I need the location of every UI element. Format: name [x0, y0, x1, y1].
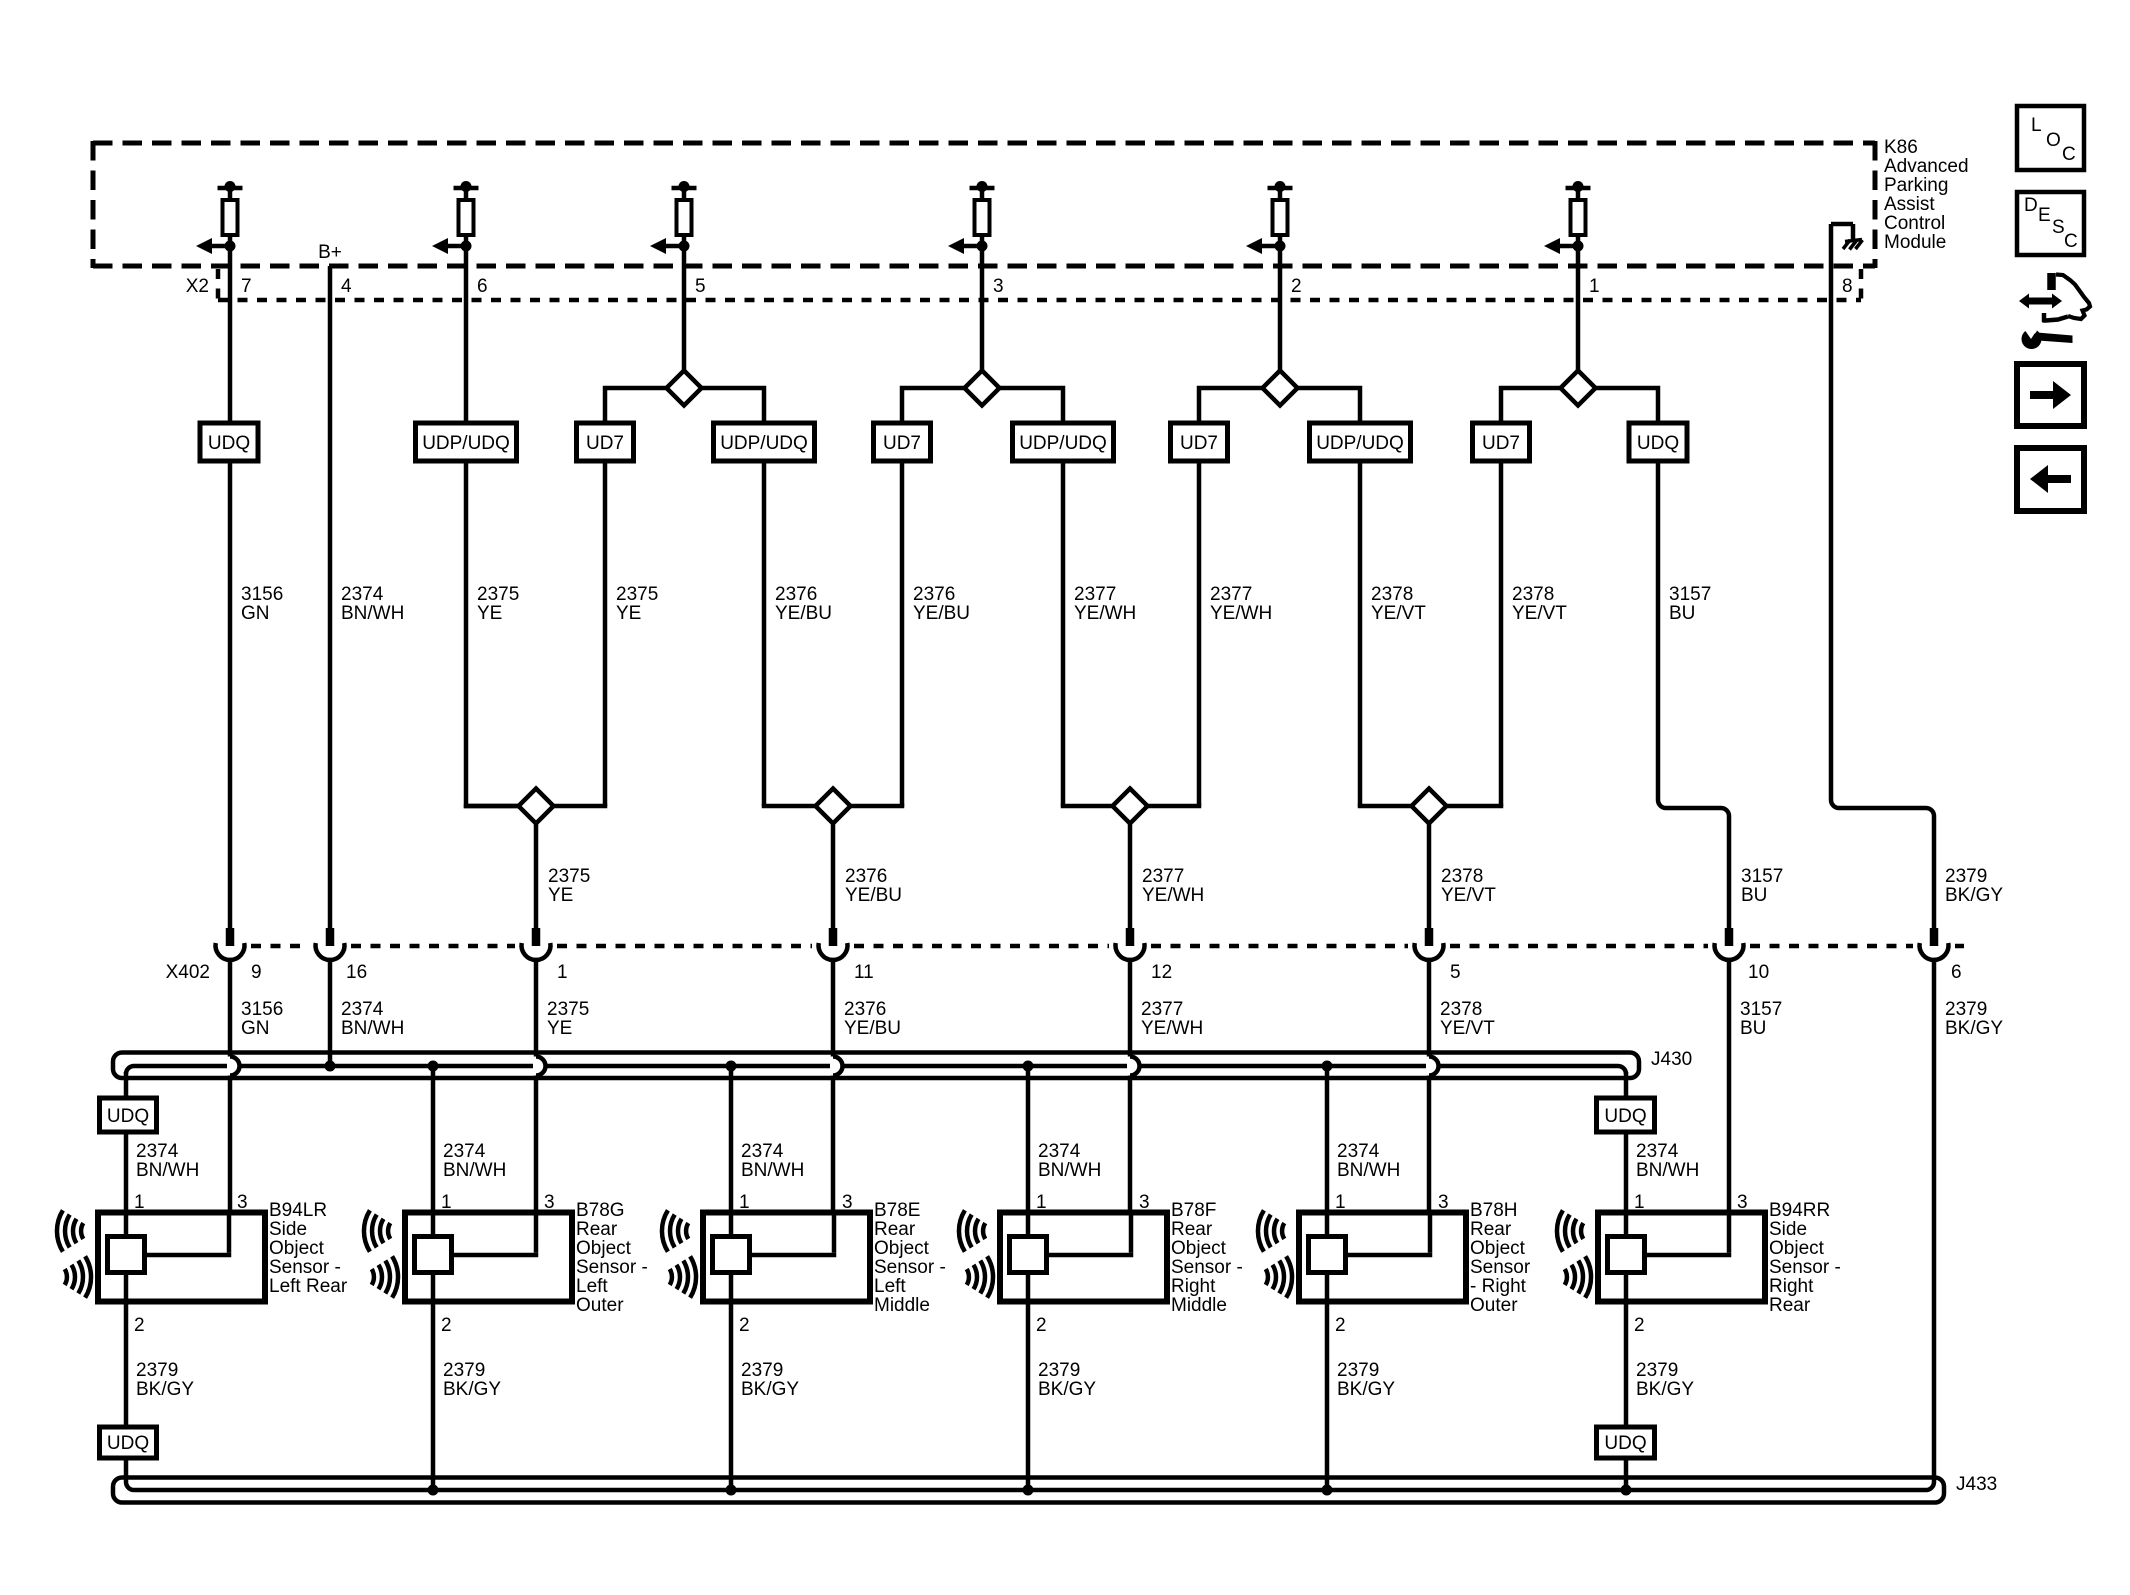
internal driver resistor R5 on X2 branch (x=1280) — [1246, 181, 1293, 254]
wire merged output of splice x=1130 to X402 — [1128, 824, 1133, 931]
splice diamond (branch merge) at x=536 — [519, 789, 554, 824]
svg-text:2374: 2374 — [1038, 1141, 1081, 1162]
wire 2374 BN/WH J430 to B94LR pin 1 (via UDQ) — [124, 1072, 129, 1213]
svg-text:YE: YE — [477, 603, 502, 624]
svg-text:YE/VT: YE/VT — [1441, 885, 1496, 906]
svg-text:BK/GY: BK/GY — [1636, 1379, 1694, 1400]
pin 5 of X402 — [1450, 962, 1461, 983]
wire left branch of diamond x=684 — [605, 388, 667, 806]
svg-text:YE/VT: YE/VT — [1440, 1018, 1495, 1039]
splice pack J430 housing — [113, 1053, 1639, 1079]
svg-text:Left: Left — [576, 1276, 608, 1297]
wire label 2374 BN/WH at sensor B78F — [1038, 1141, 1101, 1181]
wire label 2375 YE (upper run) — [616, 584, 658, 624]
object sensor B78G body — [405, 1213, 572, 1302]
svg-text:BN/WH: BN/WH — [741, 1160, 804, 1181]
pin 1 of X402 — [557, 962, 568, 983]
harness code box UDQ at x=1658 — [1629, 423, 1687, 461]
harness code box UD7 at x=1501 — [1473, 423, 1530, 461]
svg-text:BU: BU — [1741, 885, 1767, 906]
splice pack J433 bus bar (2379 BK/GY distribution) — [126, 1482, 1926, 1490]
pin 2 of B94RR — [1634, 1315, 1645, 1336]
svg-text:2379: 2379 — [1038, 1360, 1080, 1381]
svg-text:BN/WH: BN/WH — [136, 1160, 199, 1181]
connector X402 face (dotted line) — [251, 944, 1964, 949]
svg-text:2: 2 — [739, 1315, 750, 1336]
svg-text:2379: 2379 — [1945, 866, 1987, 887]
svg-text:YE/VT: YE/VT — [1371, 603, 1426, 624]
svg-text:X2: X2 — [186, 276, 209, 297]
wire B78E pin 3 internal — [750, 1213, 837, 1256]
svg-text:2: 2 — [1291, 276, 1302, 297]
svg-text:J433: J433 — [1956, 1474, 1997, 1495]
svg-text:Middle: Middle — [1171, 1295, 1227, 1316]
svg-text:12: 12 — [1151, 962, 1172, 983]
splice pack J430 bus bar (2374 BN/WH distribution) — [126, 1066, 1626, 1074]
connector X402 terminal pin 10 — [1715, 928, 1744, 960]
svg-text:Sensor: Sensor — [1470, 1257, 1531, 1278]
svg-text:Right: Right — [1769, 1276, 1814, 1297]
svg-text:2374: 2374 — [136, 1141, 179, 1162]
pin 3 of X2 — [993, 276, 1004, 297]
svg-text:E: E — [2038, 205, 2051, 226]
svg-text:8: 8 — [1842, 276, 1853, 297]
svg-text:UDP/UDQ: UDP/UDQ — [720, 433, 808, 454]
pin 2 of B78E — [739, 1315, 750, 1336]
transducer element inside B94LR — [108, 1237, 145, 1273]
svg-text:UD7: UD7 — [1180, 433, 1218, 454]
svg-text:BK/GY: BK/GY — [136, 1379, 194, 1400]
wire circuit 2375 YE (X2 pin 6 down to splice diamond) — [466, 246, 519, 806]
wire label 2378 YE/VT (above X402) — [1441, 866, 1496, 906]
ultrasonic wave icon of B78F — [959, 1210, 993, 1297]
svg-text:O: O — [2046, 130, 2061, 151]
pin 6 of X402 — [1951, 962, 1962, 983]
svg-text:B94RR: B94RR — [1769, 1200, 1830, 1221]
svg-text:2379: 2379 — [1945, 999, 1987, 1020]
svg-text:2377: 2377 — [1142, 866, 1184, 887]
svg-text:6: 6 — [477, 276, 488, 297]
object sensor B78E body — [703, 1213, 870, 1302]
wire label 2379 BK/GY (above X402) — [1945, 866, 2003, 906]
wire hop (no connection) over J430 bus at x=1429 — [1429, 1057, 1439, 1076]
connector X402 terminal pin 16 — [316, 928, 345, 960]
internal driver resistor R6 on X2 branch (x=1578) — [1544, 181, 1591, 254]
svg-text:UDQ: UDQ — [107, 1106, 149, 1127]
svg-text:2: 2 — [1036, 1315, 1047, 1336]
wire 2379 BK/GY B94RR pin 2 to J433 (via UDQ) — [1624, 1302, 1629, 1491]
svg-text:B+: B+ — [318, 242, 342, 263]
label B78F — [1171, 1200, 1243, 1316]
pin 9 of X402 — [251, 962, 262, 983]
icon box LOC — [2017, 106, 2084, 170]
label connector X402 — [166, 962, 210, 983]
transducer element inside B78G — [415, 1237, 452, 1273]
wire label 3156 GN (below X402) — [241, 999, 283, 1039]
svg-text:Rear: Rear — [874, 1219, 916, 1240]
wire label 2374 BN/WH at sensor B94LR — [136, 1141, 199, 1181]
wire label 2379 BK/GY at sensor B94LR — [136, 1360, 194, 1400]
wire 2379 BK/GY B78H pin 2 to J433 — [1325, 1302, 1330, 1491]
svg-text:YE: YE — [616, 603, 641, 624]
wire label 3157 BU (below X402) — [1740, 999, 1782, 1039]
svg-text:2377: 2377 — [1074, 584, 1116, 605]
net label B+ — [318, 242, 342, 263]
pin 3 of B78E — [842, 1192, 853, 1213]
transducer element inside B78F — [1010, 1237, 1047, 1273]
svg-text:2375: 2375 — [547, 999, 589, 1020]
pin 2 of X2 — [1291, 276, 1302, 297]
svg-text:2379: 2379 — [1636, 1360, 1678, 1381]
svg-text:2376: 2376 — [844, 999, 886, 1020]
svg-text:2374: 2374 — [1337, 1141, 1380, 1162]
wire label 2376 YE/BU (upper run) — [775, 584, 832, 624]
wire label 2376 YE/BU (upper run) — [913, 584, 970, 624]
svg-text:YE/WH: YE/WH — [1141, 1018, 1203, 1039]
wire label 2377 YE/WH (above X402) — [1142, 866, 1204, 906]
svg-text:BK/GY: BK/GY — [1945, 885, 2003, 906]
svg-text:C: C — [2064, 231, 2078, 252]
harness code box UD7 at x=605 — [577, 423, 634, 461]
svg-text:3: 3 — [993, 276, 1004, 297]
wire 2378 YE/VT X402 pin 5 to sensor B78H pin 3 — [1427, 960, 1432, 1255]
svg-text:Assist: Assist — [1884, 194, 1935, 215]
svg-text:UDP/UDQ: UDP/UDQ — [1316, 433, 1404, 454]
ultrasonic wave icon of B78E — [662, 1210, 696, 1297]
svg-text:BN/WH: BN/WH — [1636, 1160, 1699, 1181]
pin 1 of B78E — [739, 1192, 750, 1213]
wire label 2375 YE (below X402) — [547, 999, 589, 1039]
wire label 2376 YE/BU (below X402) — [844, 999, 901, 1039]
svg-text:D: D — [2024, 195, 2038, 216]
svg-text:2378: 2378 — [1440, 999, 1482, 1020]
wire merged output of splice x=1429 to X402 — [1427, 824, 1432, 931]
svg-text:2378: 2378 — [1441, 866, 1483, 887]
pin 16 of X402 — [346, 962, 367, 983]
wire 2379 BK/GY B78F pin 2 to J433 — [1026, 1302, 1031, 1491]
wire 2376 YE/BU X402 pin 11 to sensor B78E pin 3 — [831, 960, 836, 1255]
splice diamond (branch merge) at x=833 — [816, 789, 851, 824]
wire label 2379 BK/GY at sensor B78E — [741, 1360, 799, 1400]
wire X2 branch into splice diamond at x=1578 — [1576, 246, 1581, 371]
wire B94RR pin 1 through transducer to pin 2 — [1624, 1213, 1629, 1302]
object sensor B94RR body — [1598, 1213, 1765, 1302]
svg-text:3157: 3157 — [1741, 866, 1783, 887]
wire label 2377 YE/WH (below X402) — [1141, 999, 1203, 1039]
wire label 3157 BU (upper run) — [1669, 584, 1711, 624]
svg-text:16: 16 — [346, 962, 367, 983]
svg-text:3157: 3157 — [1740, 999, 1782, 1020]
harness code box UDQ (left, below J430) — [100, 1098, 157, 1132]
internal driver resistor R2 on X2 branch (x=466) — [432, 181, 479, 254]
wire right branch of diamond x=982 — [1000, 388, 1064, 806]
label B94RR — [1769, 1200, 1841, 1316]
svg-text:UDQ: UDQ — [107, 1433, 149, 1454]
ultrasonic wave icon of B78H — [1258, 1210, 1292, 1297]
harness code box UDP/UDQ at x=764 — [714, 423, 815, 461]
svg-text:B78F: B78F — [1171, 1200, 1216, 1221]
svg-text:BK/GY: BK/GY — [443, 1379, 501, 1400]
svg-text:2375: 2375 — [616, 584, 658, 605]
wire label 2379 BK/GY at sensor B78H — [1337, 1360, 1395, 1400]
svg-text:2377: 2377 — [1141, 999, 1183, 1020]
harness code box UDQ at x=229 — [200, 423, 258, 461]
junction on J433 bus at x=433 — [428, 1485, 439, 1496]
svg-text:YE/BU: YE/BU — [844, 1018, 901, 1039]
svg-text:YE/WH: YE/WH — [1210, 603, 1272, 624]
svg-text:2376: 2376 — [775, 584, 817, 605]
icon vehicle maneuver with wrench — [2019, 273, 2090, 349]
harness code box UD7 at x=1199 — [1171, 423, 1228, 461]
harness code box UDQ (right, above J433) — [1597, 1427, 1655, 1458]
splice diamond (branch split) at x=1280 — [1263, 371, 1298, 406]
wire 2374 BN/WH J430 to B78G pin 1 — [431, 1066, 436, 1213]
harness code box UDQ (left, above J433) — [100, 1427, 157, 1458]
svg-text:B78E: B78E — [874, 1200, 920, 1221]
svg-text:2378: 2378 — [1512, 584, 1554, 605]
svg-text:K86: K86 — [1884, 137, 1918, 158]
wire 2374 BN/WH J430 to B94RR pin 1 (via UDQ) — [1624, 1072, 1629, 1213]
svg-text:2378: 2378 — [1371, 584, 1413, 605]
wire label 2379 BK/GY at sensor B94RR — [1636, 1360, 1694, 1400]
wire right branch of diamond x=1280 — [1298, 388, 1361, 806]
connector X402 terminal pin 11 — [819, 928, 848, 960]
wire B78F pin 1 through transducer to pin 2 — [1026, 1213, 1031, 1302]
svg-text:7: 7 — [241, 276, 252, 297]
svg-text:2: 2 — [134, 1315, 145, 1336]
svg-text:YE/BU: YE/BU — [775, 603, 832, 624]
connector X402 terminal pin 6 — [1920, 928, 1949, 960]
label B78E — [874, 1200, 946, 1316]
pin 3 of B94LR — [237, 1192, 248, 1213]
object sensor B78H body — [1299, 1213, 1466, 1302]
wire 3156 GN X402 pin 9 to sensor B94LR pin 3 — [228, 960, 233, 1255]
transducer element inside B94RR — [1608, 1237, 1645, 1273]
svg-text:UDQ: UDQ — [1637, 433, 1679, 454]
svg-text:Object: Object — [1470, 1238, 1526, 1259]
icon box forward arrow — [2017, 364, 2084, 426]
svg-text:UDQ: UDQ — [1604, 1433, 1646, 1454]
junction on J430 bus at x=1327 — [1322, 1061, 1333, 1072]
pin 2 of B78H — [1335, 1315, 1346, 1336]
object sensor B78F body — [1000, 1213, 1167, 1302]
wire label 2379 BK/GY (below X402) — [1945, 999, 2003, 1039]
svg-text:6: 6 — [1951, 962, 1962, 983]
svg-text:11: 11 — [854, 962, 874, 983]
svg-text:2379: 2379 — [136, 1360, 178, 1381]
svg-text:YE/BU: YE/BU — [845, 885, 902, 906]
transducer element inside B78H — [1309, 1237, 1346, 1273]
svg-text:Rear: Rear — [1769, 1295, 1811, 1316]
svg-text:Side: Side — [269, 1219, 307, 1240]
pin 4 of X2 — [341, 276, 352, 297]
pin 11 of X402 — [854, 962, 874, 983]
wire label 2374 BN/WH at sensor B78E — [741, 1141, 804, 1181]
svg-text:Module: Module — [1884, 232, 1946, 253]
pin 2 of B78G — [441, 1315, 452, 1336]
svg-text:L: L — [2031, 115, 2042, 136]
wire 2379 BK/GY B78G pin 2 to J433 — [431, 1302, 436, 1491]
svg-text:UDP/UDQ: UDP/UDQ — [422, 433, 510, 454]
svg-text:2374: 2374 — [341, 999, 384, 1020]
svg-text:BN/WH: BN/WH — [443, 1160, 506, 1181]
pin 1 of B78G — [441, 1192, 452, 1213]
svg-text:9: 9 — [251, 962, 262, 983]
wire X2 branch into splice diamond at x=684 — [682, 246, 687, 371]
svg-text:3157: 3157 — [1669, 584, 1711, 605]
harness code box UDQ (right, below J430) — [1597, 1098, 1655, 1132]
wire label 2379 BK/GY at sensor B78F — [1038, 1360, 1096, 1400]
svg-text:J430: J430 — [1651, 1049, 1692, 1070]
svg-text:Right: Right — [1171, 1276, 1216, 1297]
pin 1 of B78H — [1335, 1192, 1346, 1213]
internal driver resistor R4 on X2 branch (x=982) — [948, 181, 995, 254]
svg-text:2374: 2374 — [741, 1141, 784, 1162]
svg-text:BN/WH: BN/WH — [1337, 1160, 1400, 1181]
wire 2379 BK/GY X402 pin 6 to splice pack J433 — [1926, 960, 1934, 1490]
wire label 2374 BN/WH (upper run) — [341, 584, 404, 624]
wire B+ feed, circuit 2374 BN/WH (X2 pin 4 to X402 pin 16) — [328, 266, 333, 930]
svg-text:Object: Object — [269, 1238, 325, 1259]
wire 2374 BN/WH J430 to B78H pin 1 — [1325, 1066, 1330, 1213]
svg-text:Rear: Rear — [1171, 1219, 1213, 1240]
svg-text:BK/GY: BK/GY — [1337, 1379, 1395, 1400]
pin 6 of X2 — [477, 276, 488, 297]
wire merged output of splice x=536 to X402 — [534, 824, 539, 931]
wire label 2378 YE/VT (upper run) — [1512, 584, 1567, 624]
harness code box UDP/UDQ at x=1360 — [1310, 423, 1411, 461]
splice diamond (branch split) at x=684 — [667, 371, 702, 406]
svg-text:Outer: Outer — [1470, 1295, 1518, 1316]
icon box back arrow — [2017, 448, 2084, 511]
junction on J433 bus at x=731 — [726, 1485, 737, 1496]
svg-text:YE: YE — [547, 1018, 572, 1039]
wire 2374 BN/WH J430 to B78F pin 1 — [1026, 1066, 1031, 1213]
pin 3 of B78F — [1139, 1192, 1150, 1213]
svg-text:GN: GN — [241, 1018, 270, 1039]
wire 2379 BK/GY B94LR pin 2 to J433 (via UDQ) — [124, 1302, 129, 1483]
ultrasonic wave icon of B78G — [364, 1210, 398, 1297]
svg-text:2379: 2379 — [741, 1360, 783, 1381]
junction on J433 bus at x=1626 — [1621, 1485, 1632, 1496]
svg-text:2375: 2375 — [477, 584, 519, 605]
wire circuit 3156 GN (X2 pin 7 to X402 pin 9) — [228, 246, 233, 930]
label connector X2 — [186, 276, 209, 297]
label B78G — [576, 1200, 648, 1316]
svg-text:2: 2 — [1634, 1315, 1645, 1336]
svg-text:S: S — [2052, 217, 2065, 238]
splice diamond (branch merge) at x=1130 — [1113, 789, 1148, 824]
wire label 2378 YE/VT (below X402) — [1440, 999, 1495, 1039]
wire label 2377 YE/WH (upper run) — [1074, 584, 1136, 624]
svg-text:Sensor -: Sensor - — [874, 1257, 946, 1278]
wire hop (no connection) over J430 bus at x=536 — [536, 1057, 546, 1076]
wire label 2377 YE/WH (upper run) — [1210, 584, 1272, 624]
wire lower splice horizontal joins at x=1429 — [1358, 804, 1504, 809]
wire B94LR pin 1 through transducer to pin 2 — [124, 1213, 129, 1302]
wire B94LR pin 3 internal — [145, 1213, 232, 1256]
svg-text:BN/WH: BN/WH — [1038, 1160, 1101, 1181]
wire B78G pin 1 through transducer to pin 2 — [431, 1213, 436, 1302]
svg-text:UDP/UDQ: UDP/UDQ — [1019, 433, 1107, 454]
splice diamond (branch merge) at x=1429 — [1412, 789, 1447, 824]
svg-text:Advanced: Advanced — [1884, 156, 1969, 177]
pin 3 of B78G — [544, 1192, 555, 1213]
svg-text:GN: GN — [241, 603, 270, 624]
svg-text:YE/BU: YE/BU — [913, 603, 970, 624]
label B94LR — [269, 1200, 348, 1297]
wire X2 branch into splice diamond at x=982 — [980, 246, 985, 371]
junction on J430 bus at x=731 — [726, 1061, 737, 1072]
svg-text:3156: 3156 — [241, 999, 283, 1020]
svg-text:2374: 2374 — [443, 1141, 486, 1162]
svg-text:2379: 2379 — [1337, 1360, 1379, 1381]
svg-text:Outer: Outer — [576, 1295, 624, 1316]
wire hop (no connection) over J430 bus at x=1130 — [1130, 1057, 1140, 1076]
svg-text:Object: Object — [1769, 1238, 1825, 1259]
connector X402 terminal pin 9 — [215, 928, 244, 960]
svg-text:5: 5 — [1450, 962, 1461, 983]
svg-text:BK/GY: BK/GY — [741, 1379, 799, 1400]
wire 2374 BN/WH X402 pin 16 to splice pack J430 — [328, 960, 333, 1066]
harness code box UD7 at x=902 — [874, 423, 931, 461]
label J430 — [1651, 1049, 1692, 1070]
wire ground, circuit 2379 BK/GY (X2 pin 8 down) — [1831, 224, 1934, 930]
pin 12 of X402 — [1151, 962, 1172, 983]
wire B78E pin 1 through transducer to pin 2 — [729, 1213, 734, 1302]
svg-text:Control: Control — [1884, 213, 1945, 234]
internal driver resistor R3 on X2 branch (x=684) — [650, 181, 697, 254]
wire left branch of diamond x=982 — [902, 388, 965, 806]
svg-text:Middle: Middle — [874, 1295, 930, 1316]
chassis ground symbol inside K86 — [1831, 224, 1863, 250]
junction on J430 bus at x=1028 — [1023, 1061, 1034, 1072]
wire 2377 YE/WH X402 pin 12 to sensor B78F pin 3 — [1128, 960, 1133, 1255]
wire 3157 BU X402 pin 10 to sensor B94RR pin 3 — [1727, 960, 1732, 1255]
svg-text:X402: X402 — [166, 962, 210, 983]
wire lower splice horizontal joins at x=1130 — [1061, 804, 1202, 809]
wire 2379 BK/GY B78E pin 2 to J433 — [729, 1302, 734, 1491]
label J433 — [1956, 1474, 1997, 1495]
wire hop (no connection) over J430 bus at x=833 — [833, 1057, 843, 1076]
wire circuit 3157 BU (UDQ branch, jog to X402 pin 10) — [1596, 388, 1730, 930]
pin 7 of X2 — [241, 276, 252, 297]
junction on J430 bus at x=433 — [428, 1061, 439, 1072]
svg-text:1: 1 — [1589, 276, 1600, 297]
wire left branch of diamond x=1280 — [1199, 388, 1263, 806]
splice diamond (branch split) at x=982 — [965, 371, 1000, 406]
label B78H — [1470, 1200, 1531, 1316]
ultrasonic wave icon of B94LR — [57, 1210, 91, 1297]
internal driver resistor R1 on X2 branch (x=230) — [196, 181, 243, 254]
svg-text:5: 5 — [695, 276, 706, 297]
wire label 2374 BN/WH at sensor B78G — [443, 1141, 506, 1181]
svg-text:2374: 2374 — [341, 584, 384, 605]
svg-text:UDQ: UDQ — [208, 433, 250, 454]
svg-text:4: 4 — [341, 276, 352, 297]
wire label 2375 YE (above X402) — [548, 866, 590, 906]
wire B78H pin 1 through transducer to pin 2 — [1325, 1213, 1330, 1302]
junction on J433 bus at x=1028 — [1023, 1485, 1034, 1496]
wire left branch of diamond x=1578 — [1501, 388, 1561, 806]
transducer element inside B78E — [713, 1237, 750, 1273]
svg-text:UDQ: UDQ — [1604, 1106, 1646, 1127]
pin 1 of B78F — [1036, 1192, 1047, 1213]
connector X402 terminal pin 12 — [1116, 928, 1145, 960]
svg-text:2376: 2376 — [845, 866, 887, 887]
wire label 2374 BN/WH at sensor B78H — [1337, 1141, 1400, 1181]
svg-text:Sensor -: Sensor - — [269, 1257, 341, 1278]
